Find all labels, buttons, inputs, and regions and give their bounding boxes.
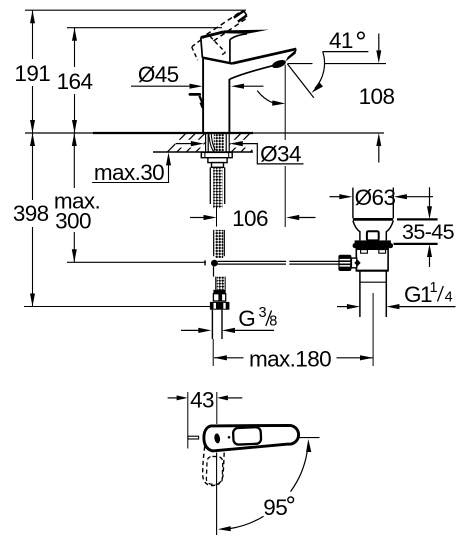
41° dimension arc left <box>257 91 273 103</box>
horizontal reference line <box>298 437 320 439</box>
waste center extension line <box>372 293 374 366</box>
G1 1/4 dimension arrows <box>337 306 348 308</box>
dimension 43 arrows <box>168 397 178 399</box>
svg-text:41: 41 <box>329 28 353 53</box>
95° arc lower with arrow <box>231 516 264 528</box>
41° label underline <box>323 51 369 53</box>
horizontal pop-up rod <box>218 261 339 264</box>
dimension 106 <box>190 217 205 219</box>
dome right edge <box>229 39 231 62</box>
dimension 191 arrowheads <box>30 10 35 133</box>
faucet body left edge <box>202 59 204 134</box>
vertical rod below ball <box>213 267 215 277</box>
deck bottom line <box>153 151 253 153</box>
dimension 35-45 arrows <box>429 187 431 207</box>
svg-text:398: 398 <box>13 201 49 226</box>
dashed handle rotated position inner <box>206 456 223 484</box>
vertical reference line <box>216 453 218 536</box>
Ø34 leader polyline <box>242 144 304 164</box>
pop-up rod knob on body <box>190 93 200 96</box>
lever loop hole <box>233 427 261 445</box>
spout top edge <box>232 49 296 64</box>
dimension 398 line <box>32 133 34 307</box>
waste plug walls / Ø63 extension lines <box>352 188 354 219</box>
raised lever tip solid strokes <box>234 11 244 18</box>
water stream diagonal <box>287 64 314 98</box>
svg-text:106: 106 <box>232 206 268 231</box>
flex hose middle outlines <box>213 230 215 256</box>
svg-text:G: G <box>238 306 255 331</box>
flex hose upper outlines <box>209 167 211 204</box>
svg-text:Ø63: Ø63 <box>355 185 396 210</box>
svg-text:4: 4 <box>445 290 453 306</box>
spout underside curve <box>230 66 273 79</box>
deck top thick section line <box>93 132 253 134</box>
G3/8 pipe <box>211 310 213 339</box>
lever top edge <box>201 32 224 38</box>
rod knob stub (top view) <box>188 436 199 439</box>
svg-text:8: 8 <box>269 314 277 330</box>
dimension 164 arrowheads <box>72 28 77 133</box>
mounting nut step 2 <box>212 163 224 168</box>
spout tip vertical extension line <box>284 65 286 140</box>
svg-text:1: 1 <box>429 280 437 296</box>
waste body bottom edge <box>356 270 388 272</box>
lever pivot oval <box>214 433 221 444</box>
dimension 191 line <box>32 10 34 133</box>
dimension 108 <box>378 34 380 52</box>
max.180 dimension line <box>214 357 244 359</box>
dashed raised lever lower line <box>214 18 248 41</box>
dimension max.300 arrowheads <box>72 133 77 262</box>
extension line 398 bottom <box>24 306 210 308</box>
deck hatching right <box>230 133 253 151</box>
tailpipe joint line <box>360 281 386 283</box>
svg-text:35-45: 35-45 <box>402 220 455 244</box>
faucet body right edge <box>228 79 230 133</box>
106 extension line segment <box>216 206 218 227</box>
extension line (164 level) <box>67 27 222 29</box>
waste flange upper band <box>355 240 391 244</box>
rod knurled thumb nut <box>338 255 351 271</box>
Ø34 hole arrows with clearing <box>176 140 204 148</box>
svg-text:108: 108 <box>359 84 395 109</box>
G3/8 dimension arrows <box>181 329 199 331</box>
rod ball joint <box>211 260 218 267</box>
G3/8 connection nut <box>210 302 230 310</box>
dimension 398 arrowheads <box>30 133 35 307</box>
extension line top (191 level) <box>25 9 246 11</box>
lever bar tapering to tip <box>224 30 269 34</box>
flex hose upper braid <box>213 167 222 208</box>
aerator outlet <box>271 58 287 69</box>
svg-text:191: 191 <box>14 61 50 86</box>
plug lift boss <box>367 231 379 240</box>
dashed handle rotated position outer <box>203 447 225 486</box>
deck hatching left <box>168 133 206 151</box>
dimension 164 line <box>74 28 76 133</box>
svg-text:164: 164 <box>57 69 93 94</box>
waste plug taper right <box>386 221 393 241</box>
shank hole edge lines <box>206 133 230 152</box>
rod ball end diamond <box>354 260 360 267</box>
svg-text:43: 43 <box>190 387 214 412</box>
svg-text:3: 3 <box>258 305 266 321</box>
43 extension lines <box>187 392 189 449</box>
dashed raised dome outline <box>192 36 226 60</box>
extension line max.300 bottom <box>67 261 206 263</box>
rod left end tick <box>204 260 206 265</box>
svg-text:G1: G1 <box>404 282 432 307</box>
waste body <box>356 248 388 271</box>
hose end fitting body <box>213 294 225 301</box>
dashed raised lever upper line <box>207 12 242 35</box>
flex hose lower outlines <box>215 277 217 290</box>
svg-text:max.30: max.30 <box>94 160 164 185</box>
svg-text:Ø34: Ø34 <box>260 141 301 166</box>
spout tip level extension line <box>288 63 313 65</box>
max.30 leader underline <box>92 163 169 183</box>
overflow slots <box>361 250 368 254</box>
svg-text:300: 300 <box>55 209 91 234</box>
waste plug top rim <box>353 218 393 221</box>
dome base line <box>202 58 232 64</box>
svg-text:max.180: max.180 <box>249 347 331 372</box>
small dot <box>228 436 231 439</box>
shank threaded band <box>214 133 224 152</box>
top view lever capsule <box>204 425 299 451</box>
max.180 arrowheads <box>214 355 227 360</box>
Ø45 leader line with arrow <box>131 85 191 87</box>
spout tip underside <box>285 49 297 62</box>
shank hose curves <box>209 134 214 152</box>
lever underside <box>230 34 247 40</box>
flex hose middle braid <box>215 230 223 258</box>
95° arc upper with arrow <box>291 452 308 492</box>
max.180 left extension line <box>212 339 214 366</box>
svg-text:Ø45: Ø45 <box>138 62 179 87</box>
mounting washer <box>201 152 232 157</box>
Ø63 arrows <box>330 196 341 198</box>
waste tailpipe <box>359 271 361 317</box>
dome left edge <box>201 38 203 58</box>
dimension 35-45 extension lines <box>397 218 438 220</box>
mounting nut step 1 <box>208 158 227 163</box>
hose end fitting band <box>213 290 225 294</box>
deck reference line <box>25 132 384 134</box>
rod clevis block <box>351 258 356 268</box>
svg-text:95: 95 <box>263 495 287 520</box>
41° dimension arc right <box>315 52 325 89</box>
waste flange lower band <box>353 243 393 248</box>
dimension max.300 line <box>73 133 75 262</box>
flex hose lower braid <box>217 277 225 290</box>
waste plug taper left <box>353 221 360 241</box>
Ø45 right arrow <box>244 85 264 87</box>
max.30 arrowhead <box>166 152 171 165</box>
